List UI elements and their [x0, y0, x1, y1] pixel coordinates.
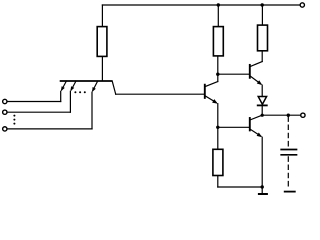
input terminal 2: [3, 110, 7, 114]
diode D1 cathode bar: [258, 104, 267, 106]
wire Q3 collector to R3: [261, 51, 263, 61]
junction output / CL: [287, 114, 290, 117]
transistor Q1 emitter E2: [71, 81, 76, 90]
transistor Q3 collector: [250, 62, 262, 67]
wire R4 to ground rail: [217, 176, 219, 187]
transistor Q1 emitter E3: [93, 81, 98, 91]
transistor Q4 collector: [250, 115, 262, 120]
wire rail to R1: [101, 5, 103, 26]
wire output horizontal: [262, 114, 300, 116]
wire R2 to rail: [217, 5, 219, 26]
input terminal 1: [3, 99, 7, 103]
transistor Q4 base bar: [249, 118, 251, 130]
wire Q2 collector to R2: [217, 56, 219, 81]
transistor Q2 collector: [205, 82, 218, 87]
ellipsis dots between emitters: [74, 91, 85, 93]
resistor R3: [258, 25, 268, 51]
VCC terminal: [300, 3, 304, 7]
transistor Q1 collector: [112, 81, 116, 94]
junction output node: [261, 114, 264, 117]
capacitor CL top plate: [281, 149, 296, 151]
junction rail R2: [217, 3, 220, 6]
wire VCC rail: [102, 4, 299, 6]
capacitor CL bottom plate: [281, 154, 296, 156]
junction rail R3: [261, 3, 264, 6]
output terminal: [301, 113, 305, 117]
wire Q2 emitter node to Q4 base: [218, 126, 250, 128]
wire R1 to Q1 base: [101, 57, 103, 81]
capacitor CL dashed lead top: [287, 115, 289, 149]
transistor Q4 emitter: [250, 129, 261, 136]
transistor Q3 base bar: [249, 65, 251, 78]
resistor R4: [213, 149, 223, 175]
wire R3 to rail: [261, 5, 263, 25]
wire Q4 emitter to ground: [261, 137, 263, 193]
wire E2 vertical: [69, 91, 71, 112]
wire input 3 horizontal: [8, 128, 93, 130]
input terminal 3: [3, 127, 7, 131]
wire diode to output node: [261, 105, 263, 115]
ground symbol bar: [259, 193, 267, 195]
capacitor CL dashed lead bottom: [287, 155, 289, 190]
wire E3 vertical: [91, 92, 93, 129]
junction Q2 emitter / Q4 base: [216, 126, 219, 129]
transistor Q1 emitter E1: [62, 81, 67, 90]
wire Q3 emitter to diode: [261, 85, 263, 96]
ground symbol bar for CL: [285, 191, 295, 193]
transistor Q1 multi-emitter base bar: [61, 80, 112, 82]
transistor Q2 base bar: [204, 85, 206, 98]
transistor Q2 emitter: [205, 96, 216, 103]
junction Q2 collector / Q3 base: [216, 73, 219, 76]
wire Q1 collector to Q2 base: [116, 93, 205, 95]
vertical ellipsis dots between inputs: [13, 115, 15, 125]
wire input 2 horizontal: [8, 111, 71, 113]
junction ground rail: [261, 185, 264, 188]
diode D1 anode triangle: [258, 97, 266, 105]
wire E1 vertical: [60, 91, 62, 101]
resistor R2: [213, 27, 223, 56]
resistor R1: [97, 27, 107, 57]
transistor Q3 emitter: [250, 76, 261, 84]
wire input 1 horizontal: [8, 101, 61, 103]
wire Q2 collector node to Q3 base: [218, 73, 250, 75]
wire Q2 emitter down: [217, 104, 219, 149]
wire ground rail horizontal: [218, 186, 262, 188]
